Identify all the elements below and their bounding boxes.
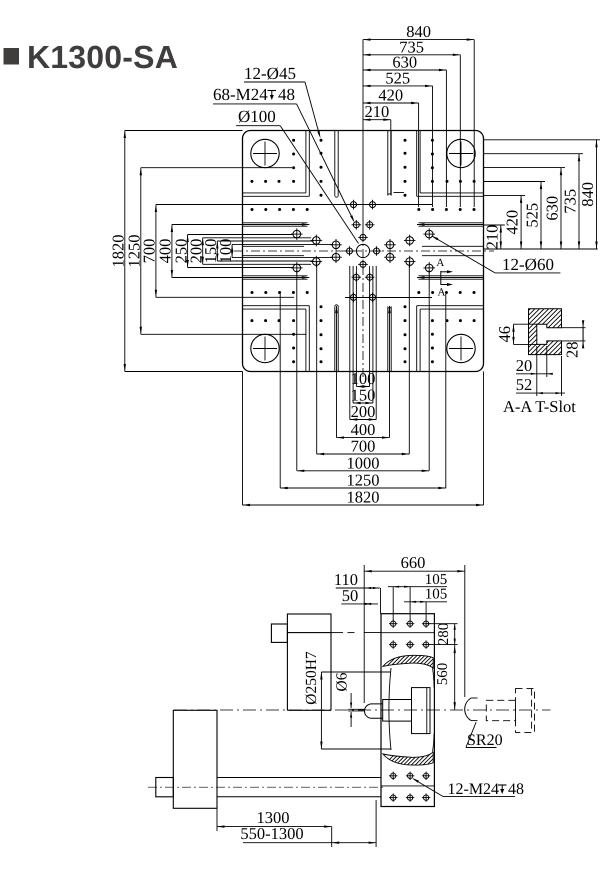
svg-text:68-M24: 68-M24 — [213, 85, 268, 104]
svg-text:Ø100: Ø100 — [238, 107, 276, 126]
svg-text:100: 100 — [216, 239, 235, 264]
vertical centerline — [362, 40, 364, 233]
inner slot stub lines — [243, 245, 305, 247]
svg-text:48: 48 — [508, 781, 524, 798]
bore hatched crescent bottom — [383, 752, 433, 765]
dim 660 — [364, 570, 465, 572]
400 extension lines with arrows — [172, 224, 309, 226]
svg-text:50: 50 — [342, 586, 359, 605]
dim Phi6 — [350, 693, 352, 708]
corner hole circle (BL) — [251, 334, 279, 362]
svg-text:12-M24: 12-M24 — [448, 781, 500, 798]
svg-text:46: 46 — [495, 326, 514, 343]
platen outline (front view) — [243, 131, 484, 372]
detail dim 46 — [513, 324, 515, 344]
main centerline — [174, 709, 551, 711]
vertical arm T-slots — [334, 131, 336, 196]
title bullet — [4, 48, 20, 65]
svg-text:550-1300: 550-1300 — [240, 824, 303, 843]
hole row connector lines — [294, 204, 432, 206]
SR20 seat arc — [465, 698, 471, 721]
12-Phi60 holes — [291, 228, 435, 273]
piston rod — [217, 777, 381, 779]
svg-text:735: 735 — [561, 189, 580, 214]
bore left wall arc — [389, 668, 391, 750]
side view: stationary platen slab — [381, 614, 434, 807]
svg-text:280: 280 — [436, 623, 452, 646]
svg-text:420: 420 — [503, 210, 522, 235]
horizontal centerline — [234, 250, 494, 252]
svg-text:630: 630 — [543, 196, 562, 221]
svg-text:660: 660 — [401, 553, 426, 572]
left dimensions 1820/1250/700/400/250/200/150/100 — [124, 131, 126, 372]
top dimensions 840/735/630/525/420/210 — [363, 39, 474, 41]
svg-text:200: 200 — [351, 402, 376, 421]
corner hole circle (TL) — [251, 139, 279, 167]
68-M24 tapped hole dots — [250, 139, 475, 364]
dim 1300 — [217, 826, 332, 828]
svg-text:210: 210 — [482, 225, 501, 250]
dim 280 — [426, 623, 457, 625]
svg-text:48: 48 — [278, 85, 295, 104]
dim 560 — [454, 645, 456, 710]
carriage cylinder — [173, 710, 217, 808]
svg-text:560: 560 — [435, 663, 451, 686]
dim Phi250H7 — [321, 671, 391, 673]
svg-text:20: 20 — [516, 356, 533, 375]
injection unit column — [287, 614, 331, 633]
svg-text:210: 210 — [365, 102, 390, 121]
svg-text:840: 840 — [578, 182, 597, 207]
svg-text:SR20: SR20 — [467, 732, 503, 749]
dim 110 — [336, 587, 380, 589]
svg-text:12-Ø45: 12-Ø45 — [244, 64, 296, 83]
corner hole circle (TR) — [447, 139, 475, 167]
bottom dimensions 100..1820 — [356, 386, 369, 388]
center hole Phi100 — [356, 244, 369, 257]
horizontal arm T-slots — [243, 222, 308, 224]
detail dim 20 — [516, 373, 550, 375]
mold phantom dashed — [486, 700, 515, 720]
svg-text:28: 28 — [563, 342, 582, 359]
svg-text:A: A — [436, 257, 444, 269]
svg-text:12-Ø60: 12-Ø60 — [502, 255, 554, 274]
dims 105/105 — [388, 586, 447, 588]
svg-text:A: A — [438, 287, 446, 299]
base/centerline closure — [287, 709, 331, 711]
T-slot L-shaped (4 quadrants) — [305, 131, 307, 193]
svg-text:1820: 1820 — [347, 488, 380, 507]
nozzle — [365, 704, 383, 718]
bore hatched crescent top — [383, 655, 433, 668]
svg-text:Ø6: Ø6 — [334, 672, 351, 691]
nozzle orifice Phi6 — [348, 708, 364, 710]
svg-text:Ø250H7: Ø250H7 — [303, 651, 320, 705]
detail dim 52 — [516, 392, 565, 394]
dim 50 — [341, 603, 378, 605]
corner hole circle (BR) — [447, 334, 475, 362]
12-Phi45 holes — [345, 200, 382, 302]
A-A T-slot sectional detail — [529, 309, 562, 355]
svg-text:A-A T-Slot: A-A T-Slot — [503, 397, 576, 416]
svg-text:1000: 1000 — [347, 453, 380, 472]
svg-text:105: 105 — [425, 587, 448, 603]
svg-text:52: 52 — [516, 375, 533, 394]
svg-text:K1300-SA: K1300-SA — [27, 39, 178, 75]
right dimensions 210/420/525/630/735/840 — [484, 248, 598, 250]
detail dim 28 — [582, 328, 584, 341]
platen mounting holes rows — [391, 621, 396, 626]
svg-text:525: 525 — [523, 203, 542, 228]
dim 550-1300 — [243, 842, 376, 844]
